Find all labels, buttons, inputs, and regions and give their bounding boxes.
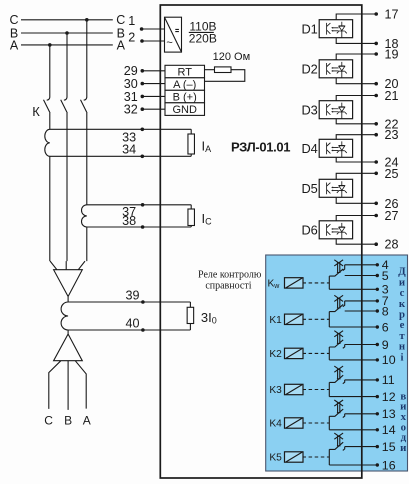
svg-text:K1: K1 — [269, 315, 282, 326]
svg-text:34: 34 — [122, 143, 136, 157]
svg-text:C: C — [9, 13, 18, 27]
svg-text:1: 1 — [128, 14, 135, 28]
svg-text:A (–): A (–) — [173, 79, 196, 91]
svg-text:17: 17 — [385, 8, 399, 22]
svg-text:~: ~ — [166, 37, 172, 49]
svg-text:C: C — [44, 414, 53, 428]
svg-text:12: 12 — [382, 390, 396, 404]
svg-text:5: 5 — [382, 269, 389, 283]
svg-text:GND: GND — [172, 104, 197, 116]
svg-text:39: 39 — [125, 289, 139, 303]
svg-text:K4: K4 — [269, 419, 282, 430]
svg-text:16: 16 — [382, 458, 396, 472]
svg-text:Реле контролю: Реле контролю — [198, 270, 262, 281]
svg-text:D5: D5 — [301, 181, 317, 196]
svg-text:A: A — [83, 414, 91, 428]
svg-text:23: 23 — [385, 128, 399, 142]
svg-text:K2: K2 — [269, 349, 282, 360]
svg-text:13: 13 — [382, 407, 396, 421]
svg-text:15: 15 — [382, 440, 396, 454]
svg-text:справності: справності — [205, 280, 251, 291]
svg-text:D6: D6 — [301, 222, 317, 237]
svg-text:27: 27 — [385, 209, 399, 223]
svg-text:К: К — [32, 104, 40, 119]
svg-text:21: 21 — [385, 89, 399, 103]
svg-text:220В: 220В — [189, 31, 217, 45]
svg-text:B (+): B (+) — [173, 92, 197, 104]
svg-text:120 Ом: 120 Ом — [213, 51, 251, 63]
svg-text:D2: D2 — [301, 61, 317, 76]
svg-text:A: A — [117, 38, 126, 52]
svg-text:B: B — [64, 414, 72, 428]
svg-text:RT: RT — [177, 67, 192, 79]
svg-text:38: 38 — [122, 214, 136, 228]
svg-text:8: 8 — [382, 304, 389, 318]
svg-text:25: 25 — [385, 167, 399, 181]
svg-text:40: 40 — [125, 317, 139, 331]
svg-text:и: и — [400, 442, 406, 454]
svg-text:K5: K5 — [269, 453, 282, 464]
svg-text:9: 9 — [382, 338, 389, 352]
svg-text:10: 10 — [382, 353, 396, 367]
svg-text:11: 11 — [382, 373, 395, 387]
svg-text:14: 14 — [382, 423, 396, 437]
svg-text:2: 2 — [128, 31, 135, 45]
svg-text:D3: D3 — [301, 102, 317, 117]
svg-text:і: і — [401, 351, 404, 363]
svg-text:6: 6 — [382, 320, 389, 334]
svg-text:C: C — [116, 13, 125, 27]
svg-text:РЗЛ-01.01: РЗЛ-01.01 — [231, 139, 290, 154]
svg-text:32: 32 — [124, 103, 138, 117]
svg-text:D1: D1 — [301, 21, 317, 36]
svg-text:D4: D4 — [301, 141, 317, 156]
svg-text:A: A — [10, 38, 19, 52]
svg-text:19: 19 — [385, 48, 399, 62]
svg-text:28: 28 — [385, 238, 399, 252]
svg-text:K3: K3 — [269, 385, 282, 396]
